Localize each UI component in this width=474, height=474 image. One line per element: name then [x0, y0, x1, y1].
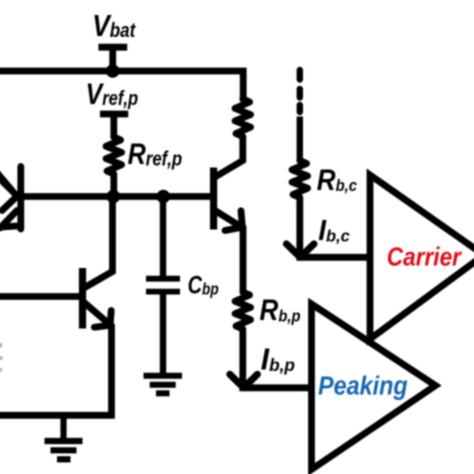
transistor Q3 base bar: [210, 168, 217, 230]
svg-text:Peaking: Peaking: [318, 372, 408, 400]
wire: Rb,c to Carrier input: [300, 198, 370, 258]
node: junction dot at Cbp: [157, 190, 171, 204]
ground (Cbp): [144, 376, 183, 394]
svg-text:Vref,p: Vref,p: [86, 77, 139, 111]
power symbol Vref,p: [100, 114, 128, 138]
svg-text:Vbat: Vbat: [92, 9, 136, 43]
resistor Rb,c: [292, 161, 308, 198]
resistor Rb,p: [235, 292, 251, 329]
transistor Q2 base bar: [79, 268, 86, 329]
transistor Q3 emitter: [215, 211, 243, 294]
current arrow Ib,p: [230, 374, 258, 388]
transistor Q3 emitter arrow: [225, 211, 242, 231]
power symbol Vbat: [98, 47, 127, 71]
resistor (collector, unlabeled): [235, 99, 251, 137]
svg-text:Ib,c: Ib,c: [318, 215, 350, 247]
op-amp Carrier (triangle): [370, 175, 474, 339]
svg-text:Rref,p: Rref,p: [128, 137, 183, 171]
ground (emitter rail): [45, 415, 83, 460]
transistor Q2 emitter: [0, 302, 112, 416]
transistor Q3 collector: [215, 136, 243, 177]
wire: base/mirror rail: [17, 193, 217, 200]
capacitor Cbp: [146, 197, 180, 376]
wire: Vbat supply rail: [0, 71, 243, 100]
svg-text:Cbp: Cbp: [188, 271, 219, 299]
op-amp Peaking (triangle): [312, 304, 436, 470]
resistor Rref,p: [106, 137, 122, 197]
svg-text:Rb,c: Rb,c: [317, 163, 357, 196]
node: junction dot on Vbat rail: [106, 64, 120, 78]
wire: Q2 base: [0, 293, 83, 300]
transistor Q1 (diode-connected, cut at left edge): [0, 167, 21, 230]
transistor Q2 emitter arrow: [94, 311, 111, 328]
wire: Rb,p to Peaking input: [243, 329, 313, 388]
current arrow Ib,c: [286, 244, 314, 257]
svg-text:Carrier: Carrier: [387, 243, 463, 272]
dashed wire (to Rb,c): [297, 70, 303, 161]
svg-text:Ib,p: Ib,p: [261, 342, 295, 377]
svg-text:Rb,p: Rb,p: [260, 294, 301, 327]
transistor Q2 collector: [83, 197, 113, 289]
edge label remnant (cut text): [0, 343, 3, 372]
node: junction dot mirror node: [107, 190, 121, 204]
